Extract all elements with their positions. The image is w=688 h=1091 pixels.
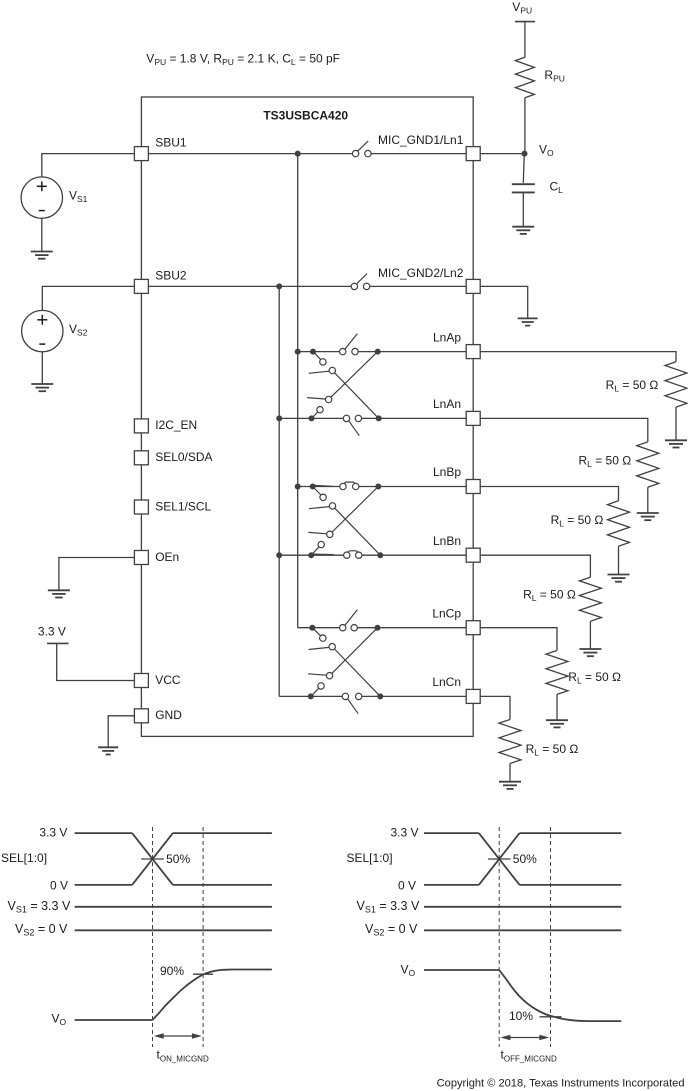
ground RL1 (LnAp) bbox=[665, 440, 687, 447]
svg-text:VO: VO bbox=[401, 962, 416, 978]
node bus junction top bbox=[295, 349, 301, 355]
timing arrow bbox=[161, 1035, 196, 1037]
ground GND pin bbox=[98, 747, 118, 754]
timing arrow bbox=[507, 1037, 542, 1039]
svg-text:OEn: OEn bbox=[155, 550, 179, 564]
wire row top to switch bbox=[298, 486, 340, 488]
wire row bottom to switch bbox=[279, 417, 343, 419]
resistor RL3 (LnBp) RL = 50 ohm bbox=[608, 501, 630, 546]
waveform SEL high level after bbox=[173, 832, 272, 834]
node pole bottom bbox=[308, 552, 314, 558]
ground VS1 bbox=[31, 252, 53, 259]
wire resistor RL3 (LnBp) to ground bbox=[618, 546, 620, 574]
node throw top-right bbox=[375, 484, 381, 490]
node pole top bbox=[310, 484, 316, 490]
tick 50% bbox=[141, 858, 164, 860]
waveform SEL falling edge bbox=[479, 833, 520, 885]
switch crossover from top pole bbox=[313, 487, 321, 496]
svg-text:VS1: VS1 bbox=[69, 189, 88, 205]
svg-text:LnAn: LnAn bbox=[433, 397, 461, 411]
wire switch to pin (bottom row) bbox=[362, 554, 466, 556]
resistor RL6 (LnCn) RL = 50 ohm bbox=[499, 720, 521, 764]
svg-text:RL = 50 Ω: RL = 50 Ω bbox=[578, 454, 631, 470]
svg-text:MIC_GND1/Ln1: MIC_GND1/Ln1 bbox=[378, 133, 464, 147]
pin I2C_EN bbox=[134, 419, 148, 433]
svg-text:0 V: 0 V bbox=[398, 878, 416, 892]
wire row bottom to switch bbox=[279, 695, 342, 697]
ground RL3 (LnBp) bbox=[608, 575, 630, 582]
switch straight top bbox=[340, 625, 346, 631]
wire RPU to node VO bbox=[524, 98, 526, 154]
wire pin to resistor RL3 (LnBp) bbox=[480, 487, 618, 501]
svg-text:SEL[1:0]: SEL[1:0] bbox=[1, 851, 47, 865]
waveform SEL rising edge bbox=[132, 833, 173, 885]
switch crossover from bottom pole bbox=[312, 412, 318, 418]
tick 10% bbox=[540, 1016, 562, 1018]
switch crossover from top pole bbox=[312, 628, 320, 636]
wire VS1 to SBU1 bbox=[42, 154, 135, 177]
waveform VS2 level bbox=[424, 929, 621, 931]
capacitor CL bbox=[512, 183, 535, 185]
svg-text:VO: VO bbox=[539, 142, 554, 158]
svg-text:VPU = 1.8 V, RPU = 2.1 K, CL =: VPU = 1.8 V, RPU = 2.1 K, CL = 50 pF bbox=[146, 52, 340, 68]
svg-text:I2C_EN: I2C_EN bbox=[155, 418, 197, 432]
wire VS2 to ground bbox=[41, 352, 43, 384]
waveform SEL low level after bbox=[520, 884, 622, 886]
svg-text:90%: 90% bbox=[160, 964, 184, 978]
IC body U1 TS3USBCA420 bbox=[141, 97, 473, 736]
svg-text:3.3 V: 3.3 V bbox=[38, 625, 66, 639]
wire resistor RL6 (LnCn) to ground bbox=[509, 764, 511, 782]
switch straight bottom bbox=[342, 693, 348, 699]
pin LnCp bbox=[466, 621, 480, 635]
switch straight bottom bbox=[343, 415, 349, 421]
pin SEL0/SDA bbox=[134, 451, 148, 465]
wire MIC_GND2 to ground bbox=[480, 286, 528, 318]
svg-text:Copyright © 2018, Texas Instru: Copyright © 2018, Texas Instruments Inco… bbox=[437, 1077, 685, 1089]
pin LnAp bbox=[466, 345, 480, 359]
wire resistor RL5 (LnCp) to ground bbox=[556, 694, 558, 720]
svg-text:3.3 V: 3.3 V bbox=[39, 826, 67, 840]
wire row top to switch bbox=[298, 627, 340, 629]
node throw top-right bbox=[375, 625, 381, 631]
waveform VS1 level bbox=[424, 906, 621, 908]
node bus junction bottom bbox=[276, 552, 282, 558]
waveform VO low after bbox=[588, 1020, 621, 1022]
waveform VO low before bbox=[75, 1019, 153, 1021]
pin OEn bbox=[134, 551, 148, 565]
svg-text:VO: VO bbox=[52, 1012, 67, 1028]
waveform VO rising exponential bbox=[153, 970, 233, 1021]
svg-text:RL = 50 Ω: RL = 50 Ω bbox=[523, 588, 576, 604]
svg-text:SBU2: SBU2 bbox=[155, 268, 187, 282]
svg-text:SBU1: SBU1 bbox=[155, 136, 187, 150]
ground CL bbox=[512, 227, 534, 234]
ground RL2 (LnAn) bbox=[637, 513, 659, 520]
svg-text:tON_MICGND: tON_MICGND bbox=[157, 1048, 209, 1064]
node throw bottom-right bbox=[376, 415, 382, 421]
switch crossover from bottom pole bbox=[311, 688, 319, 696]
wire OEn to ground bbox=[59, 558, 134, 591]
wire VS2 to SBU2 bbox=[42, 286, 134, 310]
ground RL6 (LnCn) bbox=[499, 782, 521, 789]
ground MIC_GND2 bbox=[518, 318, 538, 325]
waveform VS1 level bbox=[75, 906, 272, 908]
svg-text:RL = 50 Ω: RL = 50 Ω bbox=[551, 513, 604, 529]
node throw bottom-right bbox=[377, 552, 383, 558]
wire pin to resistor RL2 (LnAn) bbox=[480, 418, 648, 442]
node throw bottom-right bbox=[377, 693, 383, 699]
svg-text:TS3USBCA420: TS3USBCA420 bbox=[263, 109, 348, 123]
waveform SEL falling edge bbox=[132, 833, 173, 885]
wire pin to resistor RL1 (LnAp) bbox=[480, 352, 676, 362]
switch S2 MIC_GND2 bbox=[351, 283, 357, 289]
svg-text:tOFF_MICGND: tOFF_MICGND bbox=[501, 1048, 557, 1064]
wire switch to pin (bottom row) bbox=[362, 417, 467, 419]
power rail VPU bbox=[515, 21, 535, 23]
wire resistor RL4 (LnBn) to ground bbox=[589, 621, 591, 649]
svg-text:VS2 = 0 V: VS2 = 0 V bbox=[365, 922, 418, 938]
svg-text:VCC: VCC bbox=[155, 673, 181, 687]
resistor RL4 (LnBn) RL = 50 ohm bbox=[579, 577, 601, 621]
waveform SEL high level before bbox=[75, 832, 133, 834]
wire resistor RL1 (LnAp) to ground bbox=[675, 407, 677, 440]
node VO bbox=[522, 151, 528, 157]
wire switch S1 to pin MIC_GND1 bbox=[371, 153, 466, 155]
wire CL to ground bbox=[522, 193, 524, 226]
svg-text:RPU: RPU bbox=[544, 68, 564, 84]
svg-text:VS1 = 3.3 V: VS1 = 3.3 V bbox=[8, 899, 71, 915]
waveform SEL high level after bbox=[520, 832, 622, 834]
pin SBU2 bbox=[134, 279, 148, 293]
wire VS1 to ground bbox=[41, 218, 43, 251]
svg-text:RL = 50 Ω: RL = 50 Ω bbox=[606, 378, 659, 394]
ground OEn bbox=[48, 590, 70, 597]
pin MIC_GND1/Ln1 bbox=[466, 147, 480, 161]
svg-text:LnBp: LnBp bbox=[433, 465, 461, 479]
voltage source VS2 bbox=[22, 310, 63, 351]
switch S1 MIC_GND1 bbox=[352, 150, 358, 156]
svg-text:50%: 50% bbox=[166, 852, 190, 866]
node junction bus A on row1 bbox=[295, 151, 301, 157]
dashed timing line 1 bbox=[152, 827, 154, 1047]
svg-text:SEL[1:0]: SEL[1:0] bbox=[347, 851, 393, 865]
resistor RL2 (LnAn) RL = 50 ohm bbox=[637, 442, 659, 487]
wire switch to pin (top row) bbox=[357, 627, 466, 629]
tick 90% bbox=[193, 973, 213, 975]
switch crossover from top pole bbox=[313, 352, 321, 360]
svg-text:SEL0/SDA: SEL0/SDA bbox=[155, 450, 212, 464]
wire VPU to RPU bbox=[524, 22, 526, 58]
svg-text:LnBn: LnBn bbox=[433, 534, 461, 548]
waveform VO falling exponential bbox=[499, 970, 588, 1021]
svg-text:CL: CL bbox=[550, 179, 564, 195]
wire row bottom to switch bbox=[279, 554, 343, 556]
svg-text:LnCn: LnCn bbox=[432, 675, 461, 689]
node junction bus B on row2 bbox=[276, 283, 282, 289]
wire switch to pin (top row) bbox=[358, 351, 466, 353]
pin LnBp bbox=[466, 480, 480, 494]
switch straight top bbox=[340, 483, 346, 489]
waveform SEL high level before bbox=[424, 832, 479, 834]
dashed timing line 2 bbox=[550, 827, 552, 1047]
wire pin to resistor RL6 (LnCn) bbox=[480, 696, 510, 719]
ground VS2 bbox=[31, 384, 53, 391]
pin VCC bbox=[134, 674, 148, 688]
switch straight top bbox=[340, 348, 346, 354]
node pole top bbox=[310, 349, 316, 355]
svg-text:GND: GND bbox=[155, 708, 182, 722]
wire bus A from SBU1 net bbox=[297, 154, 299, 628]
svg-text:LnCp: LnCp bbox=[432, 606, 461, 620]
waveform VO high before bbox=[424, 969, 499, 971]
wire pin to resistor RL4 (LnBn) bbox=[480, 555, 590, 577]
waveform SEL low level before bbox=[424, 884, 479, 886]
svg-text:RL = 50 Ω: RL = 50 Ω bbox=[526, 742, 579, 758]
pin GND bbox=[134, 709, 148, 723]
svg-text:VS1 = 3.3 V: VS1 = 3.3 V bbox=[357, 899, 420, 915]
svg-text:RL = 50 Ω: RL = 50 Ω bbox=[568, 670, 621, 686]
pin LnBn bbox=[466, 548, 480, 562]
waveform VO high after bbox=[232, 969, 272, 971]
voltage source VS1 bbox=[21, 177, 62, 218]
waveform SEL low level after bbox=[173, 884, 272, 886]
dashed timing line 1 bbox=[498, 827, 500, 1047]
svg-text:VS2: VS2 bbox=[69, 322, 88, 338]
wire SBU2 to switch S2 bbox=[148, 285, 351, 287]
pin LnCn bbox=[466, 689, 480, 703]
svg-text:10%: 10% bbox=[509, 1009, 533, 1023]
node pole bottom bbox=[308, 693, 314, 699]
node bus junction bottom bbox=[276, 415, 282, 421]
pin SEL1/SCL bbox=[134, 500, 148, 514]
wire switch to pin (top row) bbox=[359, 486, 466, 488]
node pole bottom bbox=[309, 415, 315, 421]
svg-text:VPU: VPU bbox=[512, 0, 532, 16]
resistor RL1 (LnAp) RL = 50 ohm bbox=[665, 362, 687, 407]
svg-text:3.3 V: 3.3 V bbox=[391, 826, 419, 840]
node pole top bbox=[309, 625, 315, 631]
wire resistor RL2 (LnAn) to ground bbox=[647, 487, 649, 513]
tick 50% bbox=[488, 858, 511, 860]
power rail 3.3 V bbox=[47, 642, 69, 644]
wire pin to resistor RL5 (LnCp) bbox=[480, 628, 557, 651]
wire GND pin to ground bbox=[108, 716, 134, 748]
wire pin MIC_GND1 to node VO bbox=[480, 153, 524, 155]
switch straight bottom bbox=[344, 552, 350, 558]
svg-text:LnAp: LnAp bbox=[433, 330, 461, 344]
resistor RL5 (LnCp) RL = 50 ohm bbox=[546, 651, 568, 695]
svg-text:VS2 = 0 V: VS2 = 0 V bbox=[15, 922, 68, 938]
svg-text:0 V: 0 V bbox=[50, 878, 68, 892]
waveform SEL rising edge bbox=[479, 833, 520, 885]
pin MIC_GND2/Ln2 bbox=[466, 279, 480, 293]
node throw top-right bbox=[375, 349, 381, 355]
wire switch to pin (bottom row) bbox=[362, 695, 466, 697]
svg-text:MIC_GND2/Ln2: MIC_GND2/Ln2 bbox=[378, 266, 464, 280]
wire row top to switch bbox=[298, 351, 340, 353]
waveform SEL low level before bbox=[75, 884, 133, 886]
node bus junction top bbox=[295, 484, 301, 490]
switch crossover from bottom pole bbox=[311, 547, 319, 555]
pin LnAn bbox=[466, 411, 480, 425]
ground RL4 (LnBn) bbox=[579, 649, 601, 656]
svg-text:SEL1/SCL: SEL1/SCL bbox=[155, 499, 211, 513]
svg-text:50%: 50% bbox=[513, 852, 537, 866]
pin SBU1 bbox=[134, 147, 148, 161]
wire VO to CL bbox=[522, 156, 525, 183]
wire 3.3 V to VCC bbox=[57, 643, 135, 680]
ground RL5 (LnCp) bbox=[546, 720, 568, 727]
resistor RPU bbox=[515, 57, 534, 97]
dashed timing line 2 bbox=[202, 827, 204, 1047]
wire bus B from SBU2 net bbox=[278, 286, 280, 696]
wire switch S2 to pin MIC_GND2 bbox=[370, 285, 466, 287]
wire SBU1 to switch S1 bbox=[148, 153, 352, 155]
waveform VS2 level bbox=[75, 929, 272, 931]
